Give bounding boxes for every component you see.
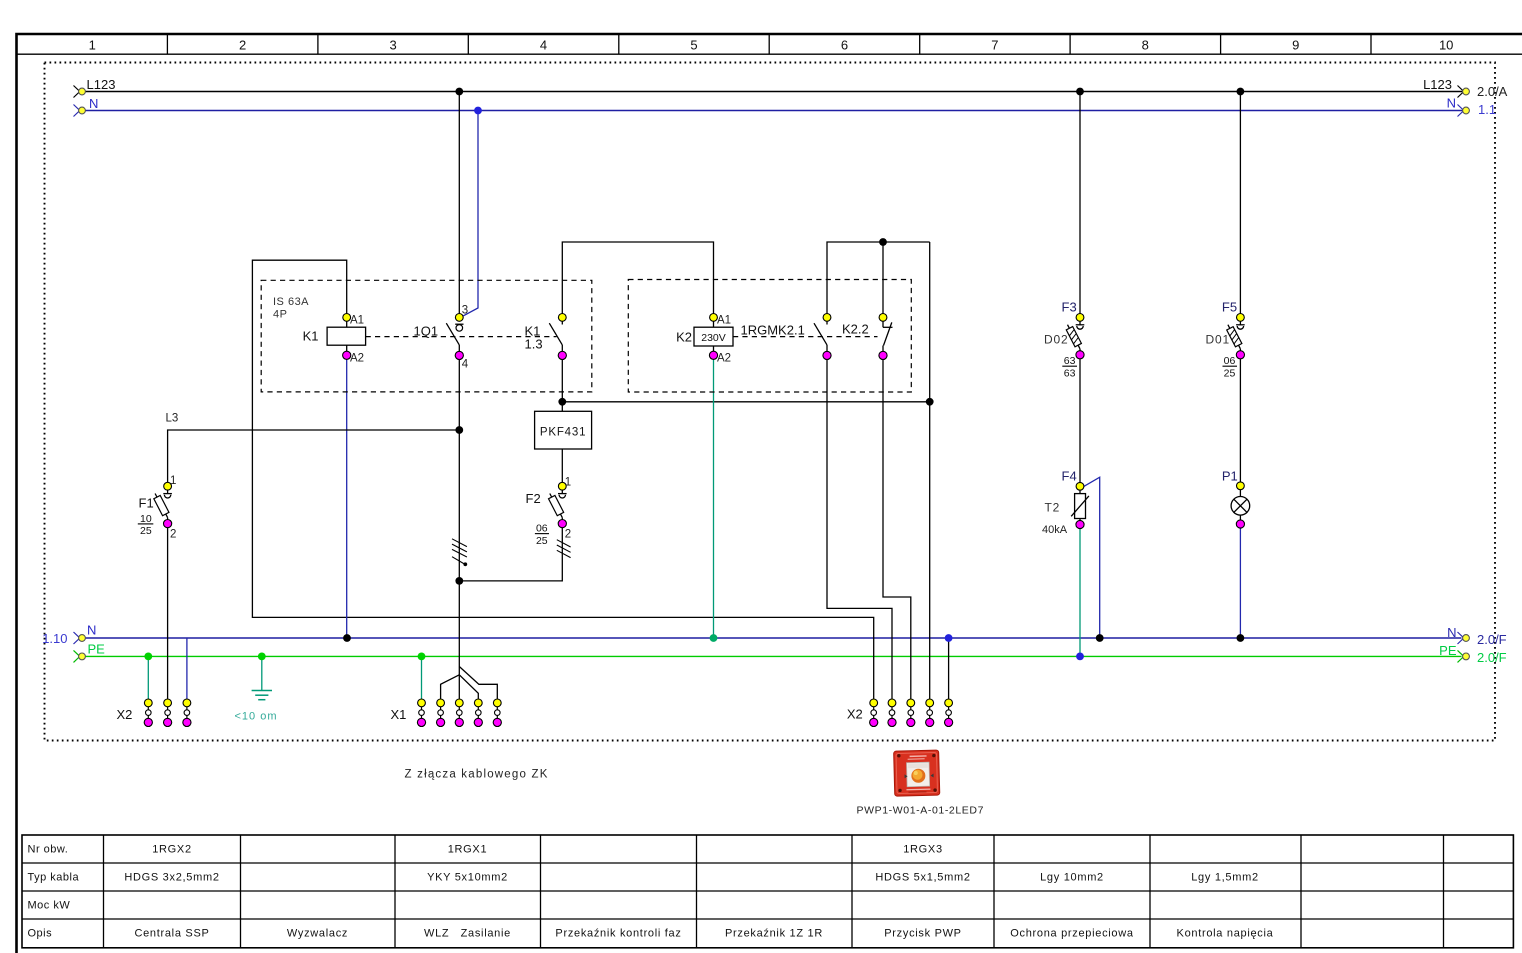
header column separators	[166, 34, 168, 54]
svg-text:A1: A1	[717, 315, 731, 327]
svg-text:Wyzwalacz: Wyzwalacz	[287, 928, 348, 940]
wire K1 coil feed loop from X2 terminal	[252, 260, 873, 699]
wire L123 drop to F5	[1239, 92, 1241, 314]
wire X1 fan diagonals	[459, 667, 497, 699]
wire L3 line to F1	[168, 430, 460, 483]
wire P1 to N (blue)	[1239, 528, 1241, 638]
svg-text:Moc kW: Moc kW	[28, 900, 71, 912]
svg-text:K1: K1	[303, 329, 319, 344]
svg-text:N: N	[89, 96, 98, 111]
svg-text:T2: T2	[1045, 501, 1061, 515]
svg-text:N: N	[1447, 96, 1456, 111]
svg-text:1RGX1: 1RGX1	[448, 844, 488, 856]
fuse F3 D02 63/63	[1076, 314, 1084, 322]
connector L123 top-right to 2.0/A	[1458, 86, 1464, 98]
svg-text:F2: F2	[526, 491, 541, 506]
svg-text:F5: F5	[1222, 300, 1237, 315]
mechanical linkage K1	[366, 336, 557, 338]
svg-text:2: 2	[565, 529, 571, 541]
svg-text:1RGMK2.1: 1RGMK2.1	[741, 323, 805, 338]
svg-text:25: 25	[536, 535, 548, 547]
circuit breaker 1Q1	[455, 314, 463, 322]
svg-text:1: 1	[89, 38, 96, 53]
wire F3 to F4	[1079, 359, 1081, 483]
svg-text:Typ kabla: Typ kabla	[28, 872, 80, 884]
svg-text:5: 5	[690, 38, 697, 53]
svg-text:HDGS 5x1,5mm2: HDGS 5x1,5mm2	[875, 872, 970, 884]
svg-text:1: 1	[565, 477, 571, 489]
connector PE bottom-left	[74, 650, 80, 662]
phase control relay PKF431	[535, 411, 592, 449]
svg-text:06: 06	[1224, 355, 1236, 367]
svg-text:X2: X2	[117, 707, 133, 722]
svg-text:D02: D02	[1044, 333, 1068, 347]
dotted drawing frame	[45, 63, 1496, 741]
svg-text:9: 9	[1292, 38, 1299, 53]
wire 1Q1 bottom to X1 fan	[458, 359, 460, 699]
svg-text:6: 6	[841, 38, 848, 53]
svg-text:A1: A1	[350, 315, 364, 327]
contact K2.2 (NC)	[879, 314, 887, 322]
svg-text:Opis: Opis	[28, 928, 53, 940]
svg-text:F1: F1	[139, 496, 154, 511]
junction dots (green)	[144, 653, 152, 661]
svg-text:F3: F3	[1062, 300, 1077, 315]
svg-text:1RGX2: 1RGX2	[152, 844, 192, 856]
wire riser x930 from y242 to X2 terminal4	[929, 242, 931, 699]
svg-text:Ochrona przepieciowa: Ochrona przepieciowa	[1010, 928, 1134, 940]
svg-text:25: 25	[140, 525, 152, 537]
bus PE	[86, 655, 1462, 657]
bottom description table	[22, 835, 1513, 948]
PWP pushbutton photo	[894, 750, 940, 796]
relay coil K2 230V	[710, 314, 718, 322]
wire F2 return to main	[459, 528, 562, 581]
connector N bottom-left from 1.10	[74, 632, 80, 644]
bus L123	[86, 91, 1463, 93]
wire PE to X2 terminal1 (teal)	[147, 656, 149, 698]
svg-text:1: 1	[170, 475, 176, 487]
bus N top	[86, 110, 1463, 112]
connector PE bottom-right to 2.0/F	[1458, 650, 1464, 662]
svg-text:P1: P1	[1222, 469, 1238, 484]
wire K1 coil A2 to N (blue)	[346, 359, 348, 638]
svg-text:L123: L123	[87, 77, 116, 92]
connector N top-left	[74, 105, 80, 117]
mechanical linkage K2	[733, 336, 878, 338]
wire K1 contact top loop to K2 A1	[562, 242, 713, 314]
svg-text:2: 2	[170, 529, 176, 541]
svg-text:Kontrola napięcia: Kontrola napięcia	[1177, 928, 1274, 940]
svg-text:Nr obw.: Nr obw.	[28, 844, 69, 856]
junction dots (blue)	[474, 107, 482, 115]
wire K2.2 bottom to X2 terminal3	[883, 359, 911, 699]
svg-text:230V: 230V	[701, 332, 726, 344]
svg-text:Przekaźnik 1Z 1R: Przekaźnik 1Z 1R	[725, 928, 823, 940]
svg-text:Z złącza kablowego ZK: Z złącza kablowego ZK	[405, 769, 549, 781]
wire N drop (blue) to 1Q1	[463, 111, 478, 317]
header row underline	[16, 53, 1522, 55]
svg-text:A2: A2	[350, 353, 364, 365]
svg-text:PKF431: PKF431	[540, 427, 586, 439]
svg-text:Lgy 1,5mm2: Lgy 1,5mm2	[1191, 872, 1259, 884]
svg-text:L123: L123	[1423, 77, 1452, 92]
svg-text:<10 om: <10 om	[235, 711, 278, 723]
svg-text:1.10: 1.10	[42, 631, 67, 646]
dashed enclosure IS 63A 4P	[261, 280, 592, 392]
svg-text:1RGX3: 1RGX3	[903, 844, 943, 856]
svg-text:2.0/F: 2.0/F	[1477, 650, 1507, 665]
svg-text:10: 10	[1439, 38, 1453, 53]
svg-text:4P: 4P	[273, 309, 287, 321]
svg-text:PWP1-W01-A-01-2LED7: PWP1-W01-A-01-2LED7	[857, 805, 985, 817]
svg-text:40kA: 40kA	[1042, 524, 1068, 536]
svg-text:7: 7	[991, 38, 998, 53]
svg-text:1.1: 1.1	[1478, 102, 1496, 117]
connector N bottom-right to 2.0/F	[1458, 632, 1464, 644]
connector L123 top-left	[74, 86, 80, 98]
svg-text:3: 3	[462, 305, 468, 317]
svg-text:D01: D01	[1206, 333, 1230, 347]
indicator lamp P1	[1237, 482, 1245, 490]
junction dot K2 A2 on N (teal)	[710, 634, 718, 642]
wire K1 contact bottom to PKF431 and bus y402	[561, 359, 563, 411]
wire PKF431 to F2	[561, 449, 563, 483]
fuse F5 D01 06/25	[1237, 314, 1245, 322]
surge arrester F4 / T2 40kA	[1076, 482, 1084, 490]
svg-text:N: N	[87, 623, 96, 638]
svg-text:63: 63	[1064, 368, 1076, 380]
svg-text:K2: K2	[676, 330, 692, 345]
svg-text:10: 10	[140, 513, 152, 525]
svg-text:PE: PE	[1439, 643, 1457, 658]
svg-text:2.0/F: 2.0/F	[1477, 632, 1507, 647]
wire L123 drop to F3	[1079, 92, 1081, 314]
wire F1 to X2 terminal2	[167, 528, 169, 699]
svg-text:2: 2	[239, 38, 246, 53]
svg-text:A2: A2	[717, 353, 731, 365]
contact K2.1	[823, 314, 831, 322]
svg-text:PE: PE	[88, 642, 106, 657]
svg-text:1Q1: 1Q1	[414, 324, 439, 339]
fuse F1 10/25	[164, 482, 172, 490]
cable marker slashes on F2 branch	[557, 540, 571, 558]
wire N to X2 terminal3 (blue)	[186, 638, 188, 699]
svg-text:X1: X1	[391, 707, 407, 722]
cable marker 3-phase slashes on main wire	[452, 539, 467, 557]
svg-text:63: 63	[1064, 355, 1076, 367]
svg-text:L3: L3	[166, 413, 179, 425]
svg-text:K2.2: K2.2	[842, 322, 869, 337]
svg-text:4: 4	[462, 359, 469, 371]
contactor coil K1	[343, 314, 351, 322]
svg-text:2.0/A: 2.0/A	[1477, 84, 1508, 99]
svg-text:4: 4	[540, 38, 547, 53]
wire K2.1 K2.2 top feed	[827, 242, 930, 314]
connector N top-right to 1.1	[1458, 105, 1464, 117]
svg-text:IS 63A: IS 63A	[273, 296, 309, 308]
svg-text:WLZ Zasilanie: WLZ Zasilanie	[424, 928, 511, 940]
wire F5 to P1	[1239, 359, 1241, 482]
svg-text:8: 8	[1142, 38, 1149, 53]
bus N bottom	[86, 637, 1462, 639]
ground electrode symbol	[261, 656, 263, 690]
svg-text:06: 06	[536, 522, 548, 534]
svg-text:YKY 5x10mm2: YKY 5x10mm2	[427, 872, 508, 884]
junction dots (black)	[455, 88, 463, 96]
svg-text:HDGS 3x2,5mm2: HDGS 3x2,5mm2	[124, 872, 219, 884]
svg-text:3: 3	[389, 38, 396, 53]
wire T2 to PE (teal)	[1079, 528, 1081, 656]
svg-text:1.3: 1.3	[525, 337, 543, 352]
wire K2.1 bottom to X2 terminal2	[827, 359, 892, 699]
svg-text:Przycisk PWP: Przycisk PWP	[884, 928, 961, 940]
svg-text:F4: F4	[1062, 469, 1077, 484]
contact K1 (1.3)	[558, 314, 566, 322]
svg-text:Centrala SSP: Centrala SSP	[134, 928, 209, 940]
svg-text:X2: X2	[847, 707, 863, 722]
svg-text:25: 25	[1224, 368, 1236, 380]
svg-text:N: N	[1447, 625, 1456, 640]
wire PE to X1 terminal1 (teal)	[421, 656, 423, 698]
wire L123 drop to 1Q1 pin3	[458, 92, 460, 314]
svg-text:Lgy 10mm2: Lgy 10mm2	[1040, 872, 1104, 884]
dashed enclosure 1RGM	[628, 280, 911, 393]
svg-text:Przekaźnik kontroli faz: Przekaźnik kontroli faz	[555, 928, 681, 940]
wire N drop to F4 (blue)	[1083, 477, 1099, 638]
fuse F2 06/25	[558, 482, 566, 490]
wire N to X2 terminal5	[948, 638, 950, 699]
wire K2 A2 to N (teal)	[713, 359, 715, 638]
